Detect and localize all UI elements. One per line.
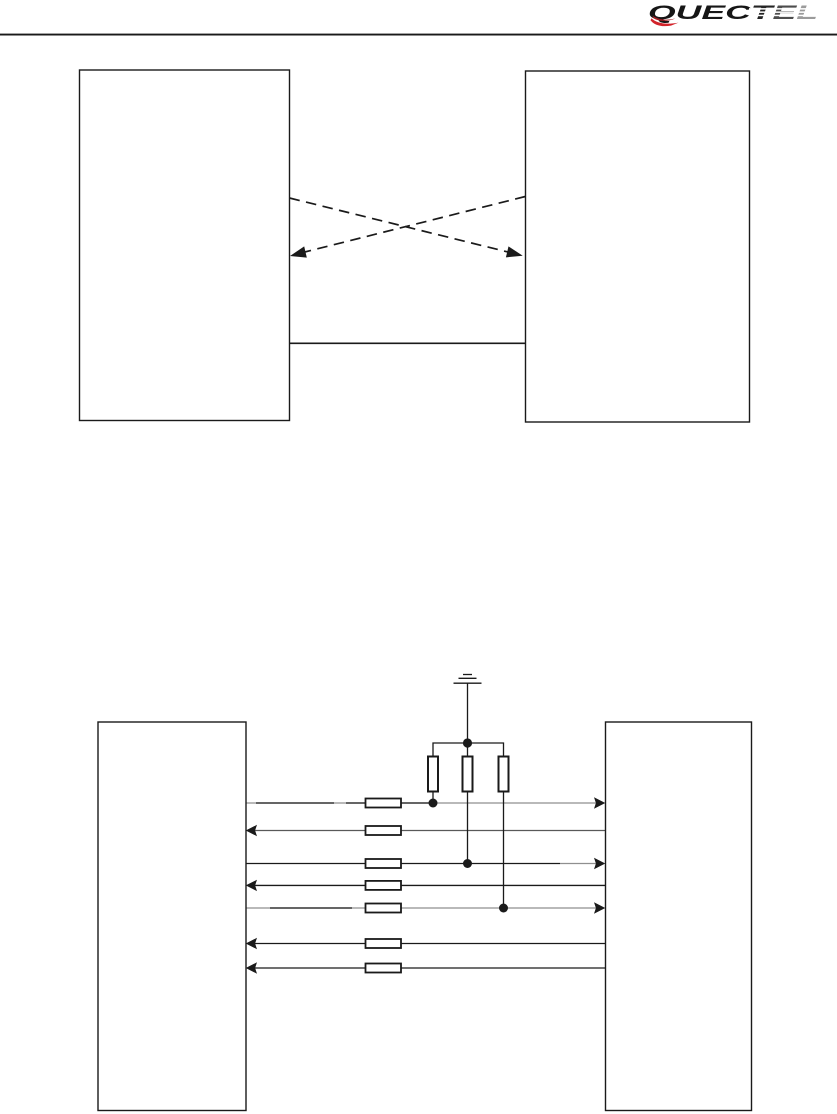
resistor R9 (series, line 6) [366,939,402,948]
wire: line 4 (black, to host) [252,884,606,886]
wire: line 3 (black, to module) [246,863,560,865]
node: junction on line 5 [499,904,508,913]
wire: line 1 resistor-to-node segment [401,802,433,804]
Quectel logo [648,3,823,26]
resistor R4 (series, line 1) [366,799,402,808]
arrowhead of dashed wire A [506,246,523,257]
resistor R8 (series, line 5) [366,904,402,913]
resistor R5 (series, line 2) [366,826,402,835]
arrowhead left line 2 [246,825,257,836]
block: bottom-left box (Host) [98,722,246,1111]
node: junction on line 1 [429,799,438,808]
wire: vertical from resistor R3 to line 5 [503,792,505,909]
arrowhead of dashed wire B [290,246,307,257]
arrowhead left line 4 [246,880,257,891]
svg-text:QUECTEL: QUECTEL [648,3,818,24]
arrowhead left line 6 [246,938,257,949]
block: top-left box (Host) [80,70,290,421]
node: ground junction [463,738,472,747]
arrowhead left line 7 [246,962,257,973]
resistor R10 (series, line 7) [366,964,402,973]
resistor R6 (series, line 3) [366,859,402,868]
wire: line 2 (black, to host) [252,830,606,832]
arrowhead right line 1 [594,797,605,808]
wire: vertical from resistor R1 to line 1 [432,792,434,804]
wire: line 1 black segment [256,802,334,804]
wire: line 1 (gray, to module) [246,802,596,804]
node: junction on line 3 [463,859,472,868]
block: top-right box (Module) [526,71,750,422]
block: bottom-right box (Module) [606,722,752,1111]
resistor R1 (vertical pull-down left) [428,757,438,792]
arrowhead right line 5 [594,902,605,913]
wire: ground stem [467,683,469,743]
dashed wire: left box to right box (cross link A) [290,198,513,253]
wire: resistor bus [433,743,504,757]
dashed wire: right box to left box (cross link B) [300,197,525,254]
wire: vertical from resistor R2 to line 3 [467,792,469,864]
arrowhead right line 3 [594,858,605,869]
wire: line 5 black segment [270,907,352,909]
wire: line 6 (black, to host) [252,943,606,945]
wire: line 3 gray tail [560,863,596,865]
resistor R2 (vertical pull-down middle) [463,757,473,792]
resistor R3 (vertical pull-down right) [499,757,509,792]
ground [454,675,482,684]
wire: solid link between top boxes [290,342,526,344]
resistor R7 (series, line 4) [366,881,402,890]
wire: line 7 (black, to host) [252,967,606,969]
wire: line 5 (gray, to module) [246,907,596,909]
header rule [0,34,837,36]
wire: line 1 black segment before resistor [346,802,366,804]
